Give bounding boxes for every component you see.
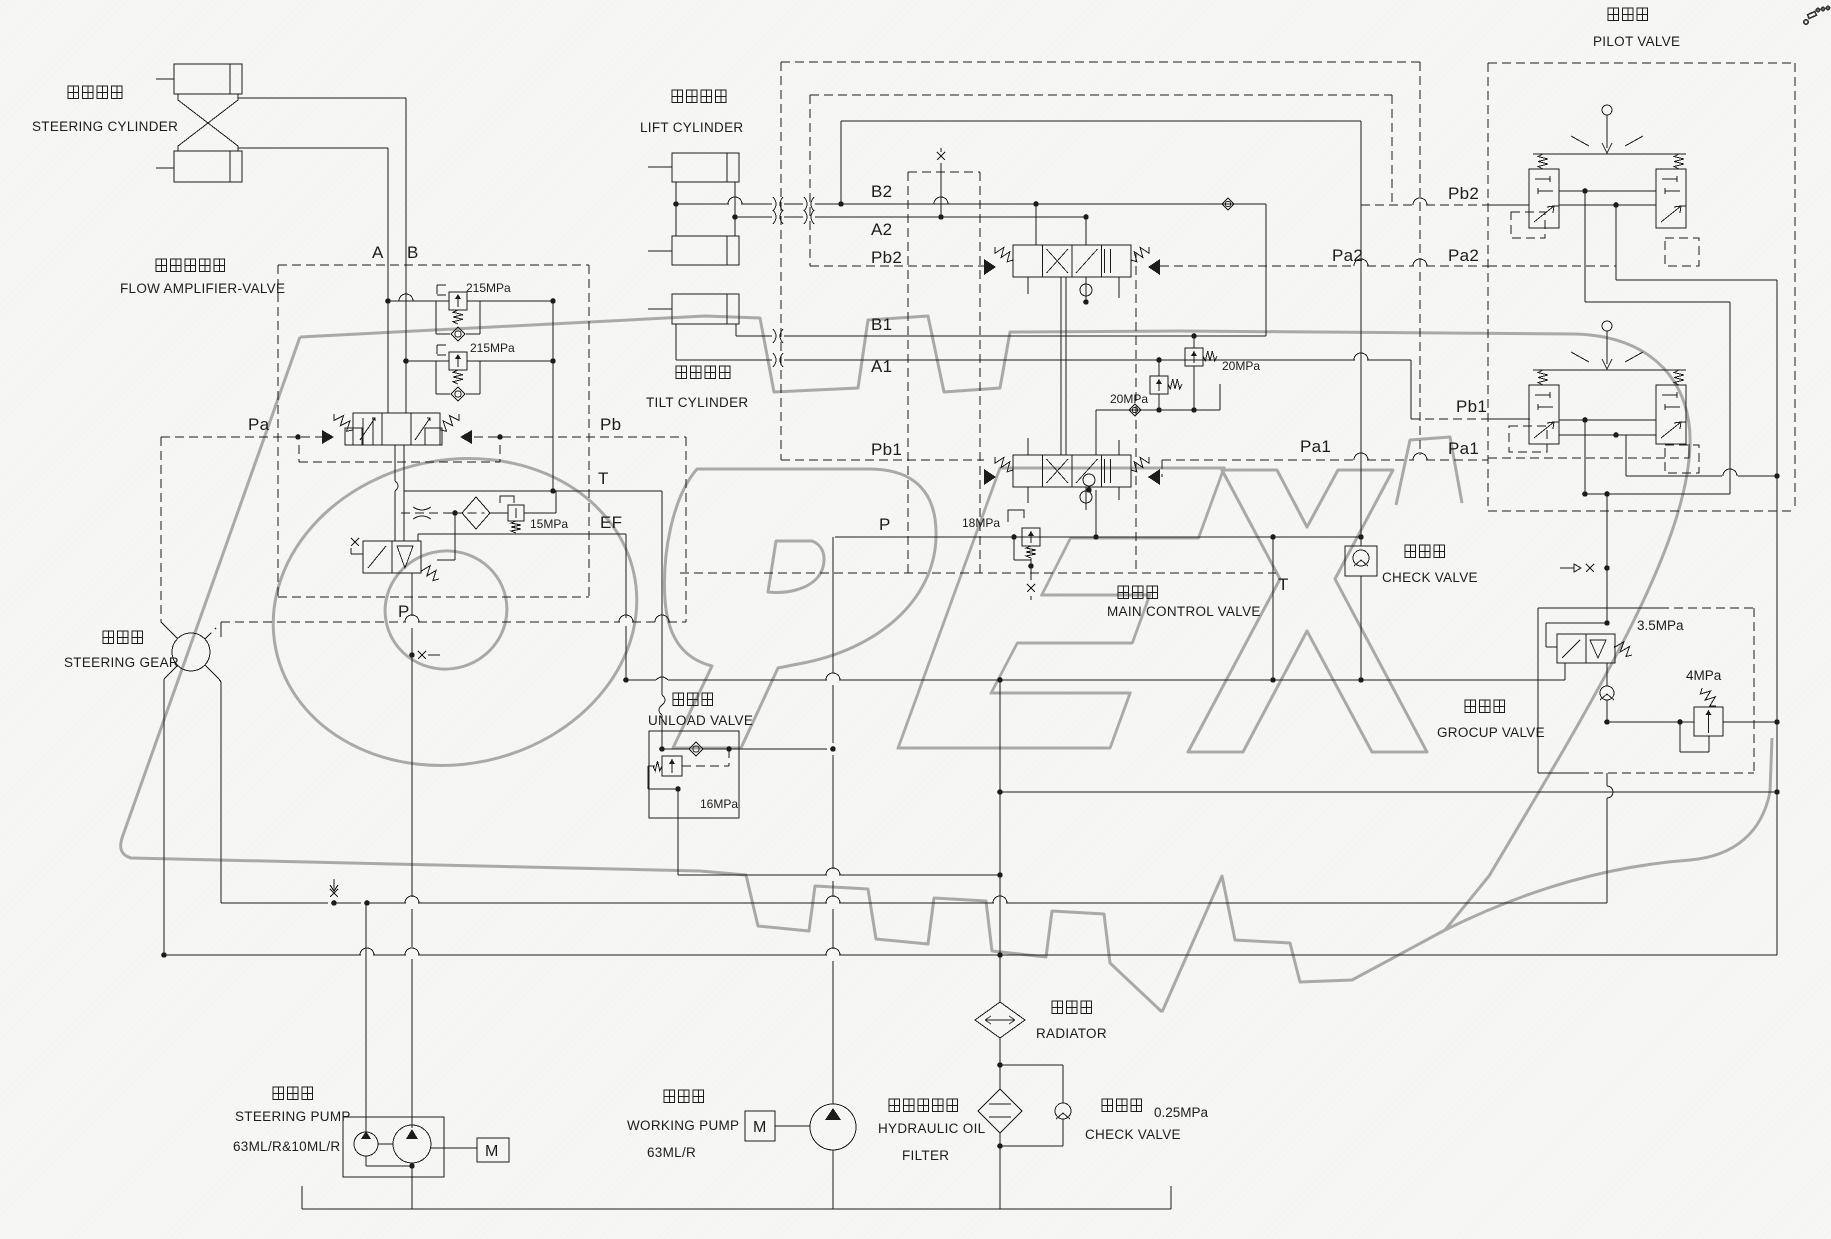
svg-text:STEERING GEAR: STEERING GEAR: [64, 655, 179, 670]
svg-text:Pb2: Pb2: [1448, 184, 1479, 203]
svg-text:215MPa: 215MPa: [466, 281, 511, 295]
svg-text:215MPa: 215MPa: [470, 341, 515, 355]
svg-text:B1: B1: [871, 315, 892, 334]
svg-text:TILT CYLINDER: TILT CYLINDER: [646, 395, 748, 410]
svg-text:B2: B2: [871, 182, 892, 201]
svg-text:FLOW AMPLIFIER-VALVE: FLOW AMPLIFIER-VALVE: [120, 281, 285, 296]
svg-text:MAIN CONTROL VALVE: MAIN CONTROL VALVE: [1107, 604, 1261, 619]
svg-text:CHECK VALVE: CHECK VALVE: [1382, 570, 1478, 585]
svg-text:15MPa: 15MPa: [530, 517, 568, 531]
svg-text:63ML/R&10ML/R: 63ML/R&10ML/R: [233, 1139, 340, 1154]
svg-text:20MPa: 20MPa: [1110, 392, 1148, 406]
svg-text:Pb1: Pb1: [1456, 397, 1487, 416]
svg-text:M: M: [485, 1143, 498, 1160]
svg-text:LIFT CYLINDER: LIFT CYLINDER: [640, 120, 743, 135]
svg-text:0.25MPa: 0.25MPa: [1154, 1105, 1209, 1120]
svg-text:Pb: Pb: [600, 415, 621, 434]
svg-text:WORKING PUMP: WORKING PUMP: [627, 1118, 739, 1133]
svg-text:P: P: [398, 602, 410, 621]
svg-text:RADIATOR: RADIATOR: [1036, 1026, 1107, 1041]
svg-text:18MPa: 18MPa: [962, 516, 1000, 530]
svg-text:CHECK VALVE: CHECK VALVE: [1085, 1127, 1181, 1142]
svg-text:UNLOAD VALVE: UNLOAD VALVE: [648, 713, 753, 728]
svg-text:T: T: [1278, 575, 1289, 594]
svg-text:16MPa: 16MPa: [700, 797, 738, 811]
svg-text:STEERING PUMP: STEERING PUMP: [235, 1109, 351, 1124]
svg-text:A2: A2: [871, 220, 892, 239]
svg-text:63ML/R: 63ML/R: [647, 1145, 696, 1160]
svg-text:T: T: [598, 469, 609, 488]
svg-text:Pb2: Pb2: [871, 248, 902, 267]
svg-text:FILTER: FILTER: [902, 1148, 949, 1163]
svg-text:P: P: [879, 515, 891, 534]
svg-text:20MPa: 20MPa: [1222, 359, 1260, 373]
svg-text:Pa2: Pa2: [1332, 246, 1363, 265]
svg-text:HYDRAULIC OIL: HYDRAULIC OIL: [878, 1121, 986, 1136]
svg-text:Pa1: Pa1: [1448, 439, 1479, 458]
svg-text:3.5MPa: 3.5MPa: [1637, 618, 1684, 633]
svg-text:PILOT VALVE: PILOT VALVE: [1593, 34, 1680, 49]
svg-text:GROCUP VALVE: GROCUP VALVE: [1437, 725, 1545, 740]
svg-text:Pa2: Pa2: [1448, 246, 1479, 265]
svg-text:Pa: Pa: [248, 415, 270, 434]
svg-text:Pa1: Pa1: [1300, 437, 1331, 456]
svg-text:4MPa: 4MPa: [1686, 668, 1722, 683]
svg-text:EF: EF: [600, 513, 622, 532]
svg-text:A: A: [372, 243, 384, 262]
svg-text:Pb1: Pb1: [871, 440, 902, 459]
svg-text:M: M: [753, 1119, 766, 1136]
svg-text:A1: A1: [871, 357, 892, 376]
svg-text:STEERING CYLINDER: STEERING CYLINDER: [32, 119, 178, 134]
svg-text:B: B: [407, 243, 419, 262]
